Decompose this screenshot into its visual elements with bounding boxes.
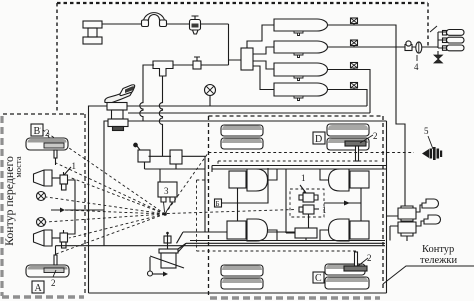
wire tee left and down with hops: [140, 65, 154, 121]
slash mark on border crossing: [430, 26, 437, 32]
safety valve: [193, 57, 201, 69]
pressure regulator: [190, 16, 201, 34]
bogie relay riser: [286, 169, 295, 233]
control dashed line to right: [167, 210, 295, 214]
wire valve to reservoir R3: [253, 61, 274, 69]
wire valve1 to riser: [68, 180, 76, 234]
brake pedal: [105, 85, 135, 103]
svg-text:1: 1: [72, 161, 77, 171]
bogie top feed line pair: [212, 166, 387, 173]
svg-text:Контур: Контур: [422, 244, 454, 255]
control fan ray to B pin: [56, 163, 165, 214]
rear brake chamber bottom-left: [227, 219, 277, 241]
wire brake valve left to down pipe: [89, 106, 108, 293]
check valve on R2 line: [351, 40, 358, 47]
control dashed branch down: [197, 180, 209, 251]
front brake chamber 1: [34, 170, 61, 186]
load sensing regulator: [148, 249, 185, 277]
control fan ray to wheel unit B: [40, 128, 165, 214]
vehicle outline top dashed border: [57, 2, 428, 4]
drain filter under trailer line: [434, 51, 443, 63]
front wheel unit B: [26, 138, 68, 165]
trailer supply gladhand 5: [422, 147, 442, 160]
bogie dashed linkage line upper: [218, 161, 380, 166]
bogie circuit dashed box right edge: [382, 116, 384, 288]
wires component 3 to junction: [164, 202, 173, 212]
svg-text:2: 2: [373, 131, 378, 141]
bottom long pipe: [89, 292, 387, 294]
svg-text:1: 1: [301, 173, 306, 183]
svg-text:5: 5: [424, 126, 429, 136]
air reservoir R2: [274, 41, 328, 58]
hand brake valve lever: [134, 143, 140, 150]
svg-text:В: В: [34, 126, 41, 137]
wire valve to reservoir R2: [253, 47, 274, 54]
bogie circuit dashed box left edge: [208, 116, 210, 298]
front wheel valve 2: [60, 230, 68, 248]
front axle circuit dashed box top edge: [3, 113, 85, 115]
four circuit protection valve: [241, 48, 253, 70]
load sensing valve stem: [164, 232, 171, 249]
control fan ray to lamp 1: [46, 197, 165, 214]
coupling valve on trailer line: [416, 42, 422, 53]
vehicle outline left upper dashed: [56, 3, 58, 113]
svg-text:Б: Б: [216, 200, 220, 208]
svg-text:тележки: тележки: [420, 255, 458, 266]
right modulator valve stack: [398, 206, 416, 236]
wire valve to reservoir R1: [247, 25, 274, 48]
main line lower (brake valve output to rear): [128, 121, 387, 293]
shutoff valve on trailer line: [405, 41, 412, 51]
check valve on R1 line: [351, 18, 358, 25]
leader line to bogie label: [383, 266, 474, 284]
vehicle outline right upper dashed: [427, 3, 429, 47]
hand brake valve: [138, 150, 150, 162]
coupling head 3: [443, 45, 465, 51]
boxed label B: [31, 124, 43, 137]
air reservoir R3: [274, 63, 328, 81]
control fan ray to trailer control line: [165, 153, 209, 215]
wire R3 to down drop: [327, 70, 370, 114]
wire R1 to right drop: [327, 25, 405, 206]
coupling head right lower: [424, 215, 441, 224]
front feed long pipe: [56, 245, 386, 247]
control fan ray to lamp 2: [46, 214, 165, 222]
coupling head 2: [443, 37, 465, 43]
front wheel valve 1: [60, 167, 71, 190]
control fan ray to front valve 2: [69, 214, 165, 238]
boxed label A: [32, 281, 44, 294]
wire brake valve bottom to front circuit: [104, 121, 108, 246]
hose jog to regulator line: [178, 243, 186, 249]
main line upper (from R4 to brake valve): [127, 105, 367, 107]
rear wheel pair bottom-left: [221, 265, 263, 289]
bogie dashed trailer control line: [209, 152, 415, 154]
wire R2 to trailer couplings: [327, 46, 428, 48]
dashed box around wheel valves: [290, 189, 324, 217]
main line middle (from R3 to brake valve): [128, 112, 370, 114]
svg-text:А: А: [35, 283, 43, 294]
boxed label C: [313, 272, 324, 284]
svg-text:3: 3: [164, 186, 169, 196]
tee block: [153, 61, 173, 76]
wire to down pipe: [229, 24, 242, 65]
front circuit text: [2, 156, 16, 246]
wire between hand valves: [149, 155, 172, 157]
bogie relay valve: [295, 228, 317, 238]
dual brake valve: [107, 103, 128, 131]
rear wheel pair bottom-right: [325, 252, 369, 289]
rear brake chamber top-left: [229, 169, 277, 221]
wire regulator to rear line: [178, 243, 186, 252]
wire A pin up to feed line: [55, 246, 57, 255]
coupling head right upper: [422, 199, 439, 208]
rear brake chamber bottom-right: [320, 219, 369, 241]
wire valve to reservoir R4: [253, 66, 274, 90]
pressure drop lamp 2: [37, 218, 46, 227]
rear wheel pair top-left: [221, 125, 263, 149]
junction node: [163, 212, 167, 216]
coupling head 1: [443, 30, 465, 36]
wire R4 to down drop: [327, 90, 367, 107]
front axle circuit dashed box bottom edge (thick gray): [2, 295, 84, 299]
control dashed line inside bogie: [197, 250, 357, 252]
pilot lamp arrow: [51, 208, 104, 213]
component 3 body: [158, 182, 177, 202]
towing shackle symbol: [142, 13, 167, 27]
check valve on R3 line: [351, 63, 358, 70]
front axle circuit dashed box left edge (thick gray): [0, 116, 3, 296]
front axle circuit dashed box right edge: [84, 114, 86, 296]
front wheel unit A: [26, 255, 69, 277]
wire shackle to pressure regulator: [166, 23, 229, 25]
pressure gauge: [205, 85, 216, 107]
air reservoir R1: [274, 19, 328, 36]
wire safety valve to tee: [173, 64, 193, 66]
svg-text:4: 4: [414, 62, 419, 72]
front brake chamber 2: [34, 230, 61, 246]
trailer coupling branch: [428, 32, 446, 48]
svg-text:2: 2: [51, 278, 56, 288]
wire tee down to hand brake valve with hops: [159, 76, 162, 156]
wire compressor to shackle: [102, 23, 143, 25]
wires modulator stack: [387, 205, 425, 241]
check valve on R4 line: [351, 83, 358, 90]
wire auxiliary valve to bogie: [177, 156, 296, 243]
wheel brake valve 1b: [299, 205, 319, 214]
auxiliary valve: [170, 150, 182, 164]
rear wheel pair top-right: [327, 124, 369, 161]
boxed label D: [313, 132, 325, 145]
compressor: [83, 21, 102, 44]
wire hand valve outputs: [145, 162, 206, 183]
svg-text:C: C: [315, 273, 322, 284]
air reservoir R4: [274, 83, 328, 101]
boxed label Б: [215, 199, 222, 208]
pressure drop lamp 1: [37, 192, 46, 201]
wire safety valve line: [201, 64, 229, 66]
svg-text:моста: моста: [13, 156, 23, 177]
wheel brake valve 1a: [299, 185, 318, 202]
bogie bottom line pair: [186, 241, 385, 244]
rear brake chamber top-right: [320, 169, 369, 221]
wire relay to bottom lines: [306, 214, 309, 241]
control fan ray to front valve 1: [69, 177, 165, 214]
svg-text:D: D: [315, 134, 322, 145]
control fan ray to arrow: [64, 210, 165, 214]
control fan ray to A pin: [56, 214, 165, 254]
bogie circuit dashed box bottom edge (thick gray): [210, 296, 380, 300]
wire from Б to chamber riser: [222, 168, 269, 203]
bogie circuit dashed box top edge: [209, 115, 384, 117]
